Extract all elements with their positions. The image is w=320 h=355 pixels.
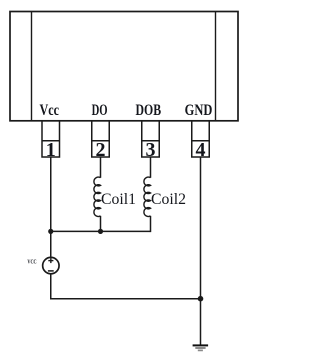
IC package body U1 [10, 12, 238, 121]
svg-text:Vcc: Vcc [40, 102, 60, 119]
voltage source V1 circle [43, 257, 59, 273]
voltage source plus sign [48, 258, 53, 263]
node A junction dot [48, 229, 53, 234]
svg-text:Coil1: Coil1 [101, 191, 136, 208]
pin 1 box [42, 121, 60, 157]
node B junction dot [98, 229, 103, 234]
wire pin3 down to coil2 [150, 157, 152, 178]
inductor Coil2 [144, 177, 151, 216]
svg-text:DOB: DOB [136, 102, 162, 119]
wire pin2 down to coil1 [100, 157, 102, 178]
ground symbol [193, 345, 209, 350]
inductor Coil1 [94, 177, 101, 216]
pin 2 box [92, 121, 110, 157]
svg-text:GND: GND [185, 102, 213, 119]
wire node A down to source [50, 231, 52, 257]
wire coil1 down to node B [100, 216, 102, 232]
pin 3 box [142, 121, 160, 157]
wire bottom rail [50, 298, 201, 300]
package inner left tab line [31, 12, 33, 121]
wire pin4 down to ground [200, 157, 202, 345]
svg-text:Coil2: Coil2 [151, 191, 186, 208]
node C junction dot [198, 296, 204, 302]
svg-text:DO: DO [92, 102, 108, 119]
wire coil2 down to horizontal bus [150, 216, 152, 232]
wire pin1 down to node A [50, 157, 52, 231]
wire horizontal bus node A to coil2 [51, 230, 151, 232]
package inner right tab line [215, 12, 217, 121]
voltage source minus sign [48, 270, 54, 272]
svg-text:VCC: VCC [27, 260, 36, 266]
pin 4 box [192, 121, 210, 157]
wire source down to bottom rail [50, 274, 52, 299]
